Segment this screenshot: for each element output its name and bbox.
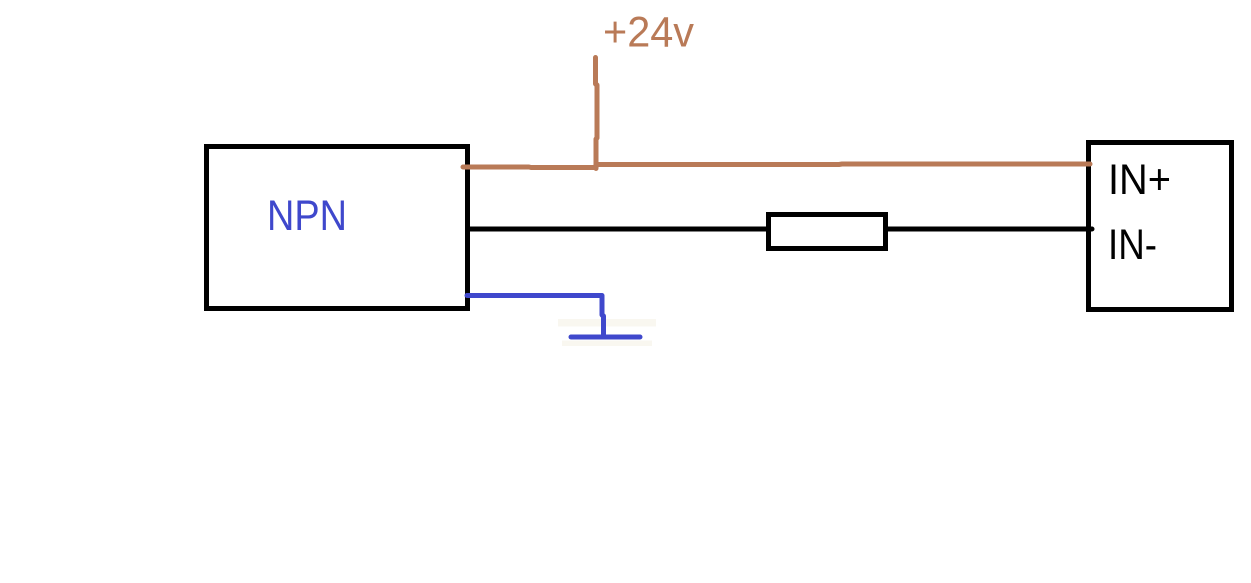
svg-text:+24v: +24v xyxy=(603,10,695,57)
svg-text:IN-: IN- xyxy=(1108,221,1157,269)
svg-text:IN+: IN+ xyxy=(1108,156,1171,204)
svg-text:NPN: NPN xyxy=(267,192,347,240)
